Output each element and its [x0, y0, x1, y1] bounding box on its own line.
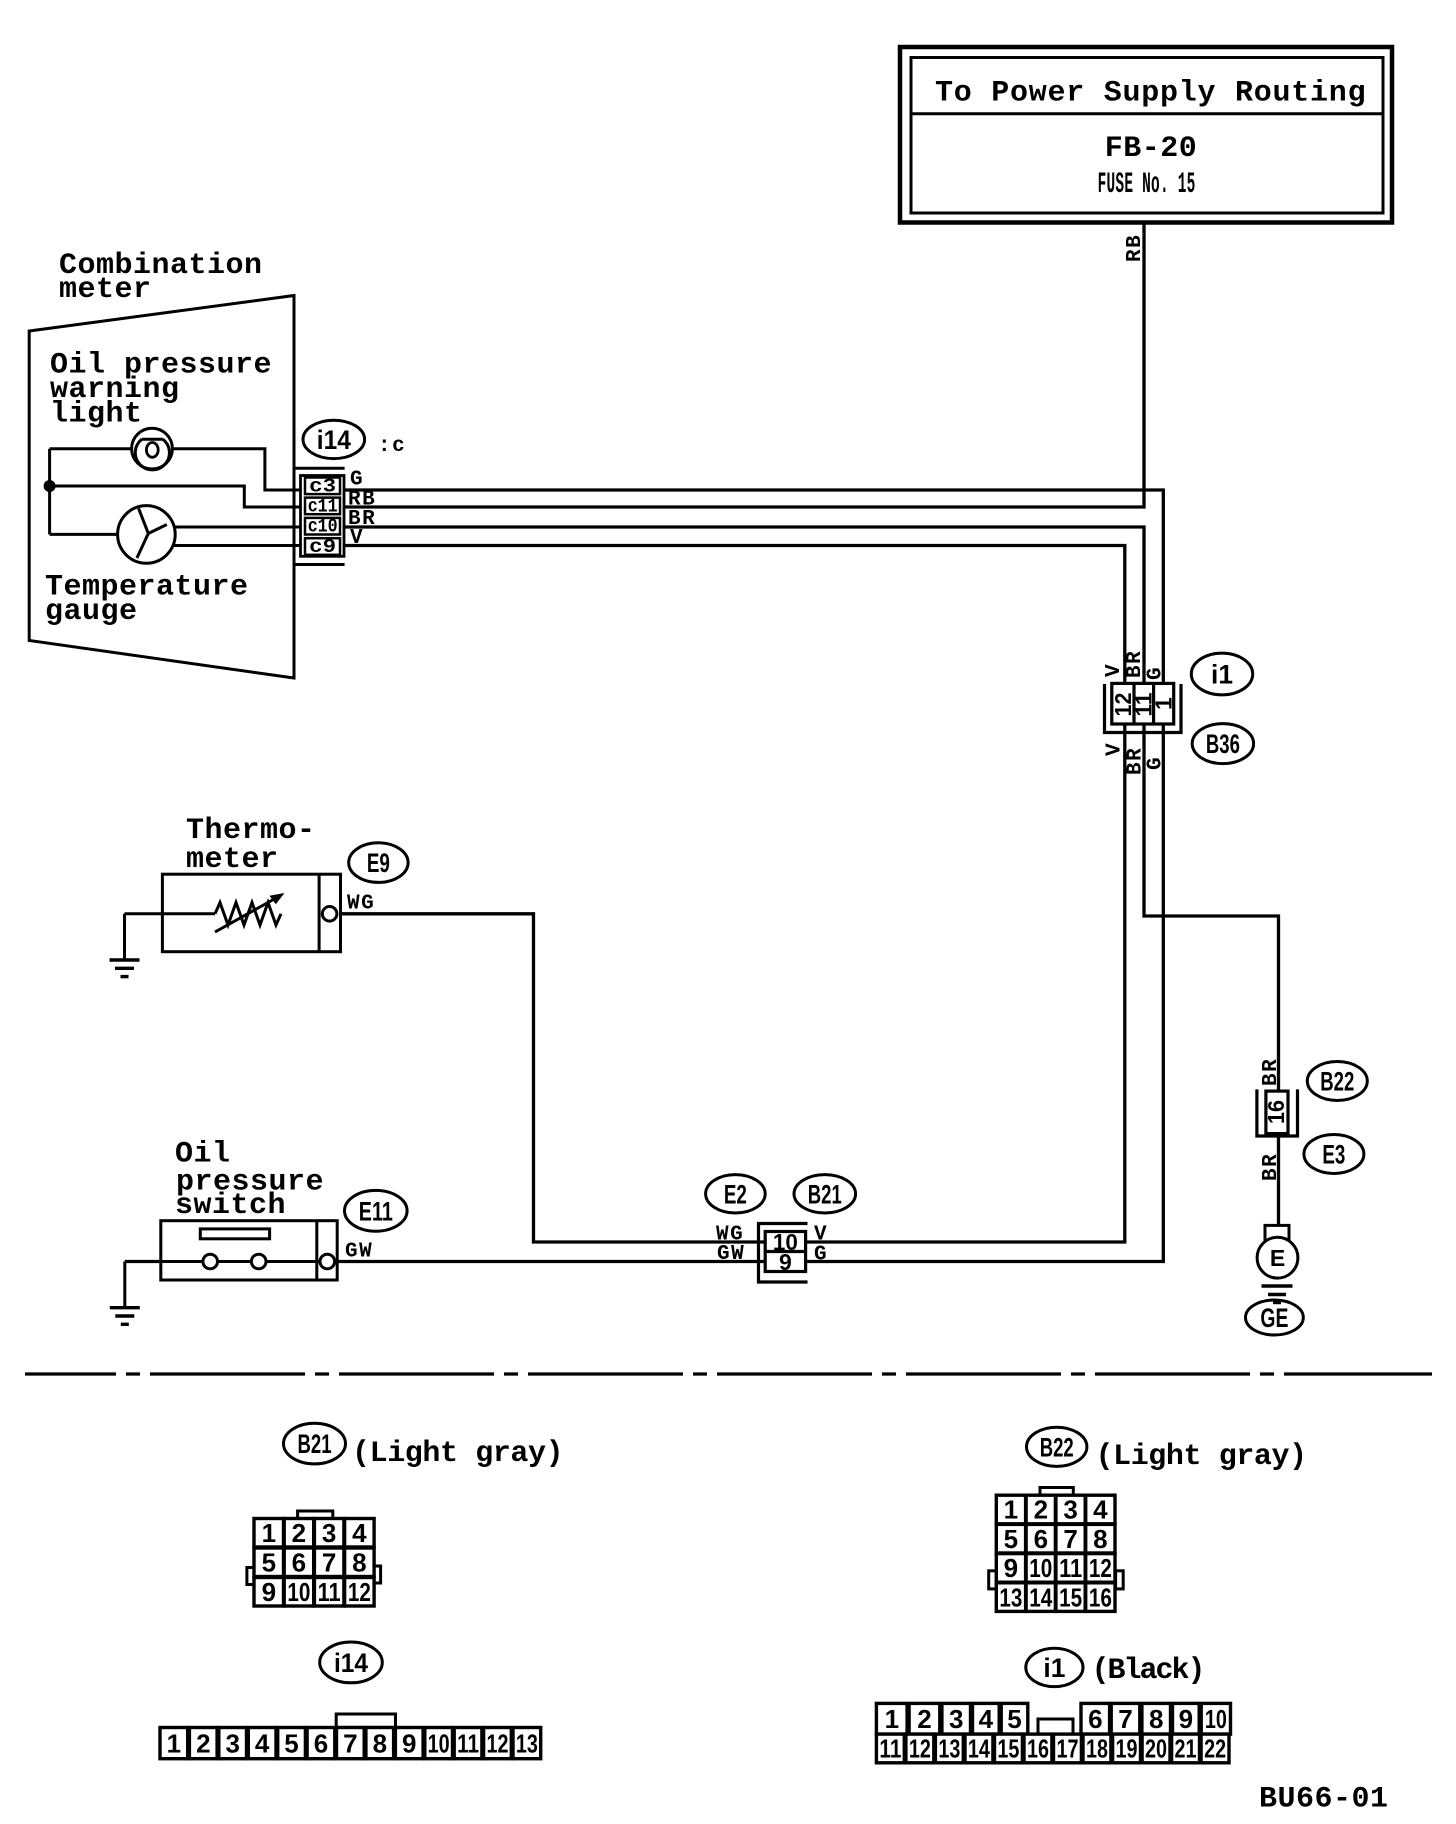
svg-text:2: 2: [917, 1704, 931, 1734]
svg-text:3: 3: [322, 1518, 336, 1548]
B22 pin 7 cell: [1056, 1524, 1085, 1553]
B21 pin 2 cell: [284, 1519, 314, 1548]
svg-text:3: 3: [949, 1704, 963, 1734]
svg-text:1: 1: [1151, 697, 1177, 710]
i14 pin 2 cell: [189, 1728, 217, 1759]
i1 pin 6 cell: [1081, 1703, 1110, 1734]
wire from junction to oil pressure warning light to i14 c3: [50, 449, 306, 490]
svg-text:GE: GE: [1260, 1303, 1288, 1333]
svg-text:E3: E3: [1322, 1140, 1345, 1170]
oil pressure warning light lamp: [132, 428, 173, 470]
svg-text:9: 9: [402, 1728, 416, 1758]
svg-text:10: 10: [287, 1577, 310, 1607]
i1 pin 17 cell: [1054, 1734, 1082, 1763]
i1 pin 10 cell: [1201, 1703, 1230, 1734]
svg-text:RB: RB: [1124, 234, 1147, 262]
wire temperature gauge to i14 c10: [173, 526, 307, 529]
svg-text:20: 20: [1145, 1734, 1167, 1764]
wire G from i14 pin c3 to i1 pin 1 to B21 pin 9: [344, 490, 1164, 1262]
i1 pin 8 cell: [1142, 1703, 1171, 1734]
i1 pin 22 cell: [1201, 1734, 1229, 1763]
svg-text:5: 5: [1004, 1524, 1018, 1554]
connector i14 designator: [303, 420, 365, 458]
svg-text:meter: meter: [186, 843, 279, 877]
i1 pin 16 cell: [1024, 1734, 1052, 1763]
B22 pin 9 cell: [996, 1554, 1025, 1583]
svg-text:1: 1: [262, 1518, 276, 1548]
svg-text:E11: E11: [359, 1196, 393, 1226]
svg-text:10: 10: [428, 1728, 450, 1758]
i1 pin 12 cell: [906, 1734, 934, 1763]
i1 pin 9 cell: [1173, 1703, 1200, 1734]
B21 pin 9 cell: [254, 1578, 284, 1607]
svg-text:9: 9: [779, 1249, 792, 1275]
B22 pin 5 cell: [996, 1524, 1025, 1553]
ground GE designator: [1246, 1300, 1304, 1335]
svg-text:8: 8: [352, 1548, 366, 1578]
svg-text:B36: B36: [1206, 729, 1240, 759]
i1 pin 2 cell: [909, 1703, 940, 1734]
svg-text:G: G: [814, 1244, 828, 1267]
B21 pin 5 cell: [254, 1548, 284, 1577]
i1 pin 13 cell: [935, 1734, 963, 1763]
connector B22 pinout designator: [1027, 1427, 1087, 1466]
connector E2/B21 pin box: [765, 1232, 805, 1272]
svg-text:13: 13: [999, 1582, 1022, 1612]
svg-text:BR: BR: [1260, 1058, 1283, 1086]
svg-text:5: 5: [1007, 1704, 1021, 1734]
svg-text:G: G: [1145, 666, 1168, 680]
svg-text:12: 12: [1089, 1553, 1112, 1583]
svg-text:(Black): (Black): [1092, 1654, 1204, 1688]
wire left vertical bus in meter: [48, 449, 51, 535]
wire V from i14 pin c9 through i1 pin 12 to B21 pin 10: [344, 546, 1125, 1243]
svg-text:16: 16: [1089, 1582, 1112, 1612]
B21 pin 1 cell: [254, 1519, 284, 1548]
i1 pin 14 cell: [965, 1734, 993, 1763]
svg-text:10: 10: [1029, 1553, 1052, 1583]
svg-text:5: 5: [284, 1728, 298, 1758]
svg-text:(Light gray): (Light gray): [352, 1437, 563, 1471]
svg-text::c: :c: [378, 435, 406, 458]
svg-text:switch: switch: [175, 1189, 286, 1223]
i1 pin 7 cell: [1111, 1703, 1140, 1734]
svg-text:E9: E9: [367, 848, 390, 878]
ground symbol E9: [110, 960, 140, 977]
i1 pin 5 cell: [1001, 1703, 1028, 1734]
switch contact 1: [203, 1254, 218, 1269]
svg-text:21: 21: [1175, 1734, 1197, 1764]
B22 pin 13 cell: [996, 1583, 1025, 1612]
svg-text:4: 4: [979, 1704, 994, 1734]
svg-text:14: 14: [1029, 1582, 1052, 1612]
svg-text:1: 1: [1004, 1495, 1018, 1525]
svg-text:16: 16: [1027, 1734, 1049, 1764]
svg-text:9: 9: [262, 1577, 276, 1607]
i1 pin 21 cell: [1172, 1734, 1200, 1763]
svg-text:FUSE No. 15: FUSE No. 15: [1098, 168, 1196, 202]
B22 pin 8 cell: [1086, 1524, 1115, 1553]
svg-text:8: 8: [1093, 1524, 1107, 1554]
svg-text:B21: B21: [298, 1429, 332, 1459]
ground terminal E: [1265, 1225, 1289, 1244]
svg-text:i1: i1: [1211, 660, 1233, 690]
B22 pin 6 cell: [1026, 1524, 1055, 1553]
B21 housing tabs: [247, 1511, 381, 1585]
svg-text:To Power Supply Routing: To Power Supply Routing: [935, 77, 1366, 111]
B22 pin 2 cell: [1026, 1495, 1055, 1524]
i1 pin 19 cell: [1113, 1734, 1141, 1763]
i14 pin 9 cell: [395, 1728, 423, 1759]
E9 ground wire: [123, 914, 126, 959]
connector i1/B36 pin box: [1112, 683, 1174, 724]
wire temperature gauge to i14 c9: [173, 544, 306, 547]
svg-text:12: 12: [487, 1728, 509, 1758]
svg-text:B21: B21: [808, 1179, 842, 1209]
i1 pin 11 cell: [876, 1734, 904, 1763]
connector B22/E3 pin box: [1266, 1091, 1288, 1134]
svg-text:i14: i14: [317, 425, 351, 455]
connector B21 pinout designator: [284, 1423, 346, 1464]
B22 housing tabs: [989, 1488, 1123, 1589]
svg-text:12: 12: [909, 1734, 931, 1764]
svg-text:BU66-01: BU66-01: [1259, 1783, 1389, 1817]
svg-text:V: V: [1103, 663, 1126, 677]
svg-text:1: 1: [167, 1728, 181, 1758]
svg-text:c3: c3: [309, 476, 336, 498]
junction node: [44, 480, 56, 492]
i14 pin 8 cell: [366, 1728, 394, 1759]
svg-text:18: 18: [1086, 1734, 1108, 1764]
svg-text:(Light gray): (Light gray): [1096, 1440, 1307, 1474]
i14 pin 3 cell: [219, 1728, 247, 1759]
connector B21 designator: [794, 1175, 856, 1213]
B21 pin 8 cell: [345, 1548, 375, 1577]
svg-text:2: 2: [292, 1518, 306, 1548]
pin c3: [305, 478, 340, 495]
B22 pin 1 cell: [996, 1495, 1025, 1524]
svg-text:FB-20: FB-20: [1105, 132, 1198, 166]
svg-text:B22: B22: [1040, 1432, 1074, 1462]
dashed separator line: [25, 1372, 1432, 1375]
connector i14 pinout designator: [320, 1642, 383, 1683]
svg-text:i1: i1: [1043, 1653, 1065, 1683]
i14 pin 1 cell: [160, 1728, 188, 1759]
svg-text:17: 17: [1057, 1734, 1079, 1764]
B21 pin 12 cell: [345, 1578, 375, 1607]
svg-text:9: 9: [1004, 1553, 1018, 1583]
pin c10: [305, 518, 340, 535]
svg-text:15: 15: [1059, 1582, 1082, 1612]
svg-text:8: 8: [373, 1728, 387, 1758]
B22 pin 15 cell: [1056, 1583, 1085, 1612]
svg-text:16: 16: [1263, 1100, 1289, 1124]
svg-text:6: 6: [1088, 1704, 1102, 1734]
thermistor zigzag: [215, 903, 281, 926]
svg-text:GW: GW: [345, 1241, 373, 1264]
svg-text:E: E: [1270, 1245, 1285, 1271]
pin c9: [305, 538, 340, 555]
i1 housing tab: [1038, 1719, 1073, 1734]
svg-text:13: 13: [938, 1734, 960, 1764]
svg-text:6: 6: [292, 1548, 306, 1578]
i14 pin 6 cell: [307, 1728, 335, 1759]
svg-text:3: 3: [225, 1728, 239, 1758]
connector B22 designator: [1307, 1062, 1367, 1101]
ground hatch: [1262, 1286, 1293, 1303]
svg-text:c11: c11: [308, 496, 338, 518]
wire from junction node to i14 c11: [50, 486, 306, 507]
combination meter box: [29, 296, 294, 679]
svg-text:11: 11: [1059, 1553, 1082, 1583]
B22 pin 16 cell: [1086, 1583, 1115, 1612]
svg-text:c10: c10: [308, 516, 338, 538]
i1 pin 1 cell: [876, 1703, 907, 1734]
svg-text:22: 22: [1204, 1734, 1226, 1764]
i1 pin 15 cell: [995, 1734, 1023, 1763]
power supply routing box: [900, 47, 1392, 223]
connector E2/B21 bracket: [759, 1224, 808, 1283]
i14 pin 12 cell: [484, 1728, 512, 1759]
svg-text:G: G: [1145, 756, 1168, 770]
wire through switch: [161, 1260, 322, 1263]
switch contact 2: [251, 1254, 266, 1269]
E9 pin circle: [322, 907, 337, 922]
connector i1 designator: [1191, 653, 1252, 695]
svg-text:7: 7: [1063, 1524, 1077, 1554]
svg-text:E2: E2: [724, 1179, 747, 1209]
svg-text:gauge: gauge: [45, 595, 138, 629]
svg-text:4: 4: [1093, 1495, 1108, 1525]
svg-text:9: 9: [1179, 1704, 1193, 1734]
svg-text:11: 11: [318, 1577, 341, 1607]
i14 pin 10 cell: [425, 1728, 453, 1759]
temperature gauge: [118, 506, 176, 564]
connector E2 designator: [706, 1175, 766, 1213]
svg-text:15: 15: [997, 1734, 1019, 1764]
svg-text:13: 13: [516, 1728, 538, 1758]
B22 pin 10 cell: [1026, 1554, 1055, 1583]
svg-text:WG: WG: [347, 893, 375, 916]
svg-text:11: 11: [879, 1734, 901, 1764]
svg-text:12: 12: [348, 1577, 371, 1607]
svg-text:8: 8: [1149, 1704, 1163, 1734]
connector i1 pinout designator: [1026, 1648, 1083, 1686]
B22 pin 3 cell: [1056, 1495, 1085, 1524]
wire WG from thermometer E9 to connector E2 pin 10: [337, 914, 765, 1242]
svg-text:19: 19: [1116, 1734, 1138, 1764]
connector i1/B36 bracket: [1105, 684, 1182, 733]
E11 pin circle: [320, 1254, 335, 1269]
switch slot: [200, 1229, 269, 1239]
E11 ground wire: [123, 1262, 126, 1307]
B21 pin 11 cell: [314, 1578, 344, 1607]
connector B36 designator: [1192, 724, 1253, 764]
B21 pin 10 cell: [284, 1578, 314, 1607]
svg-text:4: 4: [255, 1728, 270, 1758]
B22 pin 14 cell: [1026, 1583, 1055, 1612]
svg-text:11: 11: [457, 1728, 479, 1758]
svg-text:14: 14: [968, 1734, 990, 1764]
B21 pin 3 cell: [314, 1519, 344, 1548]
i14 pin 4 cell: [248, 1728, 276, 1759]
i14 pin 5 cell: [278, 1728, 306, 1759]
B21 pin 4 cell: [345, 1519, 375, 1548]
wire junction to temperature gauge: [50, 533, 118, 536]
i1 pin 20 cell: [1142, 1734, 1170, 1763]
B22 pin 12 cell: [1086, 1554, 1115, 1583]
svg-text:7: 7: [1118, 1704, 1132, 1734]
svg-text:5: 5: [262, 1548, 276, 1578]
svg-text:i14: i14: [334, 1648, 368, 1678]
svg-text:7: 7: [322, 1548, 336, 1578]
wire RB from power supply to connector i14 pin c11: [344, 223, 1145, 508]
i1 pin 3 cell: [942, 1703, 971, 1734]
svg-text:3: 3: [1063, 1495, 1077, 1525]
svg-text:1: 1: [885, 1704, 899, 1734]
connector B22/E3 bracket: [1257, 1089, 1298, 1136]
wire BR from i14 pin c10 through i1 pin 11 to B22 pin 16: [344, 527, 1279, 1227]
svg-text:GW: GW: [717, 1243, 745, 1266]
svg-text:2: 2: [1034, 1495, 1048, 1525]
i1 pin 18 cell: [1083, 1734, 1111, 1763]
svg-text:light: light: [50, 398, 143, 432]
wire GW from oil pressure switch E11 to connector E2 pin 9: [125, 1260, 765, 1263]
connector i14 at meter: [294, 468, 345, 564]
thermistor arrow: [215, 898, 277, 933]
i14 pin 7 cell: [337, 1728, 365, 1759]
svg-text:BR: BR: [1260, 1153, 1283, 1181]
wire into thermometer: [125, 912, 216, 915]
svg-text:V: V: [350, 527, 364, 550]
B21 pin 7 cell: [314, 1548, 344, 1577]
svg-text:7: 7: [343, 1728, 357, 1758]
svg-text:6: 6: [314, 1728, 328, 1758]
svg-text:c9: c9: [309, 536, 336, 558]
pin c11: [305, 498, 340, 515]
svg-text:2: 2: [196, 1728, 210, 1758]
svg-text:V: V: [1104, 742, 1127, 756]
ground symbol E11: [110, 1308, 140, 1325]
B21 pin 6 cell: [284, 1548, 314, 1577]
B22 pin 11 cell: [1056, 1554, 1085, 1583]
svg-text:4: 4: [352, 1518, 367, 1548]
connector E3 designator: [1304, 1135, 1364, 1174]
i1 pin 4 cell: [973, 1703, 1000, 1734]
B22 pin 4 cell: [1086, 1495, 1115, 1524]
i14 pin 11 cell: [454, 1728, 482, 1759]
svg-text:10: 10: [1205, 1704, 1227, 1734]
svg-text:6: 6: [1034, 1524, 1048, 1554]
svg-text:B22: B22: [1320, 1067, 1354, 1097]
svg-text:meter: meter: [59, 273, 152, 307]
i14 pin 13 cell: [513, 1728, 541, 1759]
i14 housing tab: [336, 1714, 395, 1727]
